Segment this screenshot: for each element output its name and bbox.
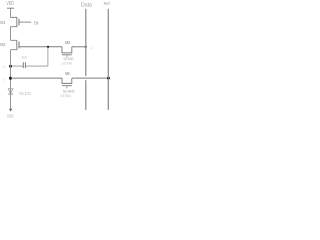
Data bus [85, 9, 87, 110]
svg-text:S: S [3, 65, 5, 69]
svg-text:OLED: OLED [19, 91, 31, 96]
VDD rail [7, 7, 14, 9]
svg-text:Ref: Ref [104, 1, 110, 7]
wire M3 to Data [72, 46, 86, 48]
svg-text:Cs: Cs [22, 54, 27, 59]
wire VDD to M1 [10, 8, 12, 17]
svg-text:Data: Data [81, 2, 92, 8]
svg-text:VSS: VSS [7, 114, 14, 119]
svg-text:M2: M2 [0, 42, 6, 47]
svg-text:SCAN1: SCAN1 [63, 57, 74, 61]
svg-text:(SENSE): (SENSE) [60, 94, 71, 98]
svg-text:G: G [90, 46, 93, 50]
wire gate node G [19, 46, 62, 48]
junction dot cap to source wire [9, 65, 12, 68]
svg-text:(SCAN): (SCAN) [62, 62, 73, 66]
transistor M2 [11, 40, 20, 49]
svg-text:SCAN2: SCAN2 [63, 90, 75, 94]
wire M4 to Ref [72, 77, 109, 79]
transistor M3 [62, 47, 72, 58]
junction dot M4 branch [9, 77, 12, 80]
transistor M1 [11, 17, 32, 26]
wire M2 source down to OLED [10, 50, 12, 89]
svg-text:M1: M1 [0, 20, 6, 25]
node G junction dot [47, 46, 49, 48]
junction dot on Data [85, 46, 87, 48]
svg-text:EM: EM [34, 21, 38, 27]
Ref bus [107, 9, 109, 110]
svg-text:M4: M4 [65, 71, 70, 76]
svg-text:M3: M3 [65, 40, 70, 45]
wire node S to M4 [11, 77, 63, 79]
junction dot on Ref [107, 77, 110, 80]
VSS rail arrow [9, 109, 12, 112]
wire OLED to VSS [10, 89, 12, 108]
transistor M4 [62, 78, 72, 88]
svg-text:S: S [3, 77, 5, 81]
wire M1 to M2 [10, 27, 12, 41]
svg-text:VDD: VDD [7, 1, 15, 7]
OLED diode [8, 89, 13, 94]
capacitor Cs [11, 47, 48, 68]
